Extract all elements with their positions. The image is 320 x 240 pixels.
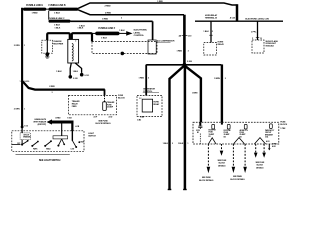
svg-text:BLOCK: BLOCK: [219, 163, 226, 165]
svg-text:A B2: A B2: [140, 116, 144, 119]
svg-text:20 AMP: 20 AMP: [107, 106, 114, 109]
svg-text:A B1: A B1: [266, 140, 270, 143]
wire from link C to compressor: [71, 18, 153, 27]
wire inside box A: [46, 40, 48, 52]
pin labels relay box: [137, 116, 144, 122]
node splice S206: [183, 61, 193, 67]
svg-text:G 101: G 101: [84, 75, 89, 77]
svg-text:G 100: G 100: [73, 78, 78, 80]
fusible link C bar: [48, 18, 70, 27]
wire drop to generator relay box: [139, 65, 150, 96]
svg-text:BLOCK: BLOCK: [118, 98, 125, 100]
svg-text:1 BLK: 1 BLK: [101, 38, 107, 40]
svg-text:RECTIFIER: RECTIFIER: [53, 44, 63, 46]
svg-text:A B2: A B2: [137, 119, 141, 122]
wire corner drop at far top right: [230, 4, 237, 20]
svg-text:SEE FUSE: SEE FUSE: [217, 160, 227, 162]
trailer fuse block box: [69, 95, 126, 115]
arrow A2 see fuse block: [217, 144, 227, 167]
svg-text:SEE LIGHT SWITCH: SEE LIGHT SWITCH: [39, 159, 61, 162]
svg-text:1 BLK: 1 BLK: [56, 71, 62, 73]
wire fan flare left: [163, 66, 185, 190]
caption see light switch: [16, 154, 70, 156]
svg-text:B1: B1: [209, 136, 211, 138]
module box flasher: [252, 40, 278, 53]
wire right branch drop to fuse block: [214, 64, 227, 122]
svg-text:S 108: S 108: [67, 118, 71, 120]
svg-text:1 BRN: 1 BRN: [214, 78, 220, 80]
wire arch generator right: [72, 28, 92, 42]
svg-text:SEE FUSE: SEE FUSE: [98, 120, 108, 122]
svg-text:RELAY: RELAY: [218, 43, 225, 46]
wire arch generator left: [47, 28, 70, 41]
relay box horn relay: [204, 41, 225, 55]
svg-text:3 RED: 3 RED: [55, 118, 61, 120]
svg-text:A B1: A B1: [272, 145, 276, 148]
svg-text:(EXPORT): (EXPORT): [38, 124, 47, 126]
fuse element in trailer box: [103, 101, 115, 110]
svg-text:BLOCK: BLOCK: [257, 165, 264, 167]
svg-text:FUSIBLE LINK E: FUSIBLE LINK E: [26, 5, 43, 7]
svg-text:SWITCH: SWITCH: [88, 135, 96, 137]
svg-text:3: 3: [52, 92, 53, 94]
junction block dashed boundary: [92, 42, 157, 54]
svg-text:1 BLK: 1 BLK: [203, 31, 209, 33]
svg-text:FUSIBLE LINK C: FUSIBLE LINK C: [48, 18, 65, 20]
relay box mid dashed: [137, 95, 162, 116]
svg-text:DETAILS: DETAILS: [218, 164, 226, 167]
svg-text:ELECTRONIC: ELECTRONIC: [134, 30, 148, 32]
svg-text:1 BRN: 1 BRN: [192, 92, 198, 94]
svg-text:1 RED: 1 RED: [157, 1, 163, 3]
wire drop to horn relay: [203, 21, 213, 42]
svg-text:1 BLK: 1 BLK: [73, 71, 79, 73]
svg-text:1 PNK: 1 PNK: [280, 128, 286, 130]
wire box B right leg: [73, 63, 82, 73]
svg-text:CONTROL: CONTROL: [134, 35, 145, 37]
fusible link F bar: [92, 28, 120, 39]
svg-text:1 BLK: 1 BLK: [54, 25, 60, 27]
wire fan center down: [178, 64, 189, 189]
dimmer contact: [71, 123, 85, 150]
svg-text:BLOCK DETAILS: BLOCK DETAILS: [230, 178, 245, 181]
svg-text:2: 2: [75, 41, 76, 43]
svg-text:2 RED: 2 RED: [104, 6, 111, 8]
svg-text:BLOCK DETAILS: BLOCK DETAILS: [199, 179, 214, 182]
switch contact 2: [31, 141, 39, 151]
wire main center vertical: [177, 15, 193, 64]
svg-text:ELECTRONIC LEVEL CON: ELECTRONIC LEVEL CON: [245, 19, 269, 21]
component box compressor: [148, 39, 175, 54]
svg-text:SEE PARK: SEE PARK: [233, 175, 243, 178]
svg-text:B2: B2: [224, 136, 226, 138]
svg-text:A/C COMPRESSOR: A/C COMPRESSOR: [157, 39, 175, 42]
circuit breaker in switch: [20, 133, 31, 140]
regulator box B: [68, 39, 79, 63]
svg-text:SEE FUSE: SEE FUSE: [255, 162, 265, 164]
switch contact 1: [12, 140, 29, 146]
svg-text:1 BLK: 1 BLK: [163, 143, 169, 145]
node splice dot on boundary: [121, 52, 125, 56]
fuse block box: [193, 122, 288, 144]
node bus horn relay terminal: [195, 14, 283, 21]
fuse G1: [196, 122, 202, 144]
arrow A3 see park block: [232, 144, 236, 173]
svg-text:FUSIBLE LINK B: FUSIBLE LINK B: [49, 5, 66, 7]
svg-text:1 BLK: 1 BLK: [54, 13, 60, 15]
fuse G4: [240, 124, 249, 138]
caption see fuse block details: [95, 120, 111, 125]
ground G101: [80, 73, 89, 77]
wire main left vertical: [14, 8, 26, 128]
svg-text:RELAY: RELAY: [153, 103, 160, 106]
svg-text:LOW: LOW: [71, 149, 75, 151]
svg-text:MODULE: MODULE: [266, 46, 275, 48]
pin labels trailer box: [94, 115, 113, 118]
svg-text:2 PPL: 2 PPL: [251, 31, 257, 33]
switch contact 4: [57, 123, 65, 146]
ground below box A: [45, 52, 49, 58]
fusible link E bar: [23, 5, 46, 15]
relay box mid label: [143, 87, 159, 92]
svg-text:1 BLK: 1 BLK: [54, 28, 60, 30]
svg-text:1 BLK: 1 BLK: [178, 143, 184, 145]
svg-text:1 RED: 1 RED: [31, 13, 38, 15]
wire drop to flasher module: [251, 21, 262, 40]
arrow A1 see fuse block: [199, 144, 214, 182]
arrow A6 see fuse block: [255, 144, 265, 169]
wire drop into trailer fuse box: [104, 89, 106, 95]
wire box B left leg: [56, 63, 71, 75]
svg-text:TERMINAL 30: TERMINAL 30: [205, 17, 218, 20]
fuse G2: [208, 124, 216, 143]
node bus electronic level control: [245, 19, 269, 21]
svg-text:2 ORN: 2 ORN: [14, 109, 20, 111]
wire into light switch: [21, 128, 23, 133]
svg-text:LEVEL: LEVEL: [134, 32, 141, 34]
wire S210 branch to fuse block: [22, 81, 105, 94]
wire upper fork to right: [78, 1, 236, 8]
svg-text:1 BLK: 1 BLK: [77, 28, 83, 30]
svg-text:BLOCK: BLOCK: [280, 124, 287, 126]
node splice S10: [21, 126, 28, 129]
wire arrow bar headlights: [33, 118, 73, 126]
ground G100: [69, 75, 78, 80]
svg-text:S 10: S 10: [24, 126, 28, 128]
connector vee right: [255, 138, 266, 144]
wire arrow to electronic level control: [119, 30, 147, 38]
svg-text:BLOCK DETAILS: BLOCK DETAILS: [95, 122, 111, 125]
relay inner box: [142, 99, 160, 112]
svg-text:1 RED: 1 RED: [177, 50, 183, 52]
wire vertical link row1 to row2: [48, 11, 50, 20]
wire lower fork to right: [78, 10, 184, 20]
fusible link B bar: [49, 5, 79, 15]
svg-text:1 RED: 1 RED: [139, 77, 145, 79]
breaker G5: [265, 124, 275, 139]
node splice S210: [19, 81, 30, 83]
wire fan left branch: [146, 64, 184, 66]
arrow A4 see park block: [230, 144, 246, 181]
light switch box: [12, 131, 97, 152]
svg-text:B1: B1: [197, 132, 199, 134]
switch contact 3: [44, 140, 52, 150]
selector bar in switch: [53, 136, 68, 139]
arrow A5 see fuse block: [254, 144, 258, 158]
generator box A: [42, 40, 64, 53]
fuse G3: [222, 122, 232, 138]
svg-text:FUSIBLE LINK F: FUSIBLE LINK F: [98, 28, 115, 30]
svg-text:FEED: FEED: [72, 106, 77, 108]
wire fan flare right: [184, 66, 201, 123]
connector vee left: [234, 138, 245, 144]
svg-text:1 RED: 1 RED: [102, 18, 109, 20]
wire stub bottom right: [268, 144, 278, 151]
wire drop into compressor box: [152, 21, 154, 40]
wire link between bars: [46, 8, 49, 10]
svg-text:1 2: 1 2: [139, 98, 141, 100]
svg-text:1 BLK: 1 BLK: [119, 30, 125, 32]
svg-text:2 ORN: 2 ORN: [14, 45, 20, 47]
svg-text:2 RED: 2 RED: [49, 86, 55, 88]
svg-text:DETAILS: DETAILS: [256, 166, 264, 169]
wire bar drop into switch: [71, 122, 73, 131]
svg-text:CIRCUIT: CIRCUIT: [23, 134, 29, 136]
svg-text:2 RED: 2 RED: [105, 13, 112, 15]
wire fan right branch: [184, 64, 221, 66]
